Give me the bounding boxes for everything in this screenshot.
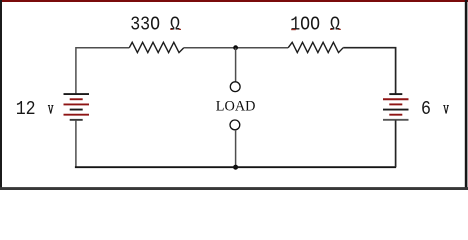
- wire center branch upper: [235, 48, 237, 82]
- terminal circle lower: [230, 120, 240, 130]
- frame border left: [0, 0, 2, 189]
- label 330 ohm: [130, 15, 180, 36]
- wire top-right: top rail right segment + right rail upper: [343, 48, 395, 94]
- svg-text:1OO Ω: 1OO Ω: [290, 15, 340, 36]
- frame border bottom: [0, 187, 468, 190]
- resistor R2 100 ohm: [288, 42, 343, 52]
- label 100 ohm: [290, 15, 340, 36]
- svg-text:6: 6: [421, 99, 431, 120]
- wire center branch lower: [235, 130, 237, 167]
- frame border right: [465, 0, 468, 190]
- label 12 V: [16, 99, 36, 120]
- wire right rail lower: [395, 120, 397, 167]
- unit V glyph right: [443, 106, 449, 114]
- svg-text:33O Ω: 33O Ω: [130, 15, 180, 36]
- svg-text:12: 12: [16, 99, 36, 120]
- wire top rail middle segment: [184, 47, 288, 49]
- battery B1 12V plates: [64, 93, 90, 95]
- terminal circle upper: [230, 82, 240, 92]
- node junction dot top: [233, 45, 238, 50]
- svg-text:LOAD: LOAD: [216, 99, 256, 115]
- wire bottom rail: [75, 166, 396, 168]
- unit V glyph left: [48, 106, 54, 114]
- label 6 V: [421, 99, 431, 120]
- wire left rail lower: [75, 120, 77, 167]
- wire top-left: top rail left segment + left rail upper: [76, 48, 129, 94]
- battery B2 6V plates: [389, 93, 402, 95]
- red serif feet on ohm of 100 and base of 1: [330, 29, 332, 30]
- node junction dot bottom: [233, 165, 238, 170]
- frame border top (dark red): [0, 0, 468, 2]
- red serif feet on ohm of 330: [170, 29, 172, 30]
- resistor R1 330 ohm: [129, 42, 184, 52]
